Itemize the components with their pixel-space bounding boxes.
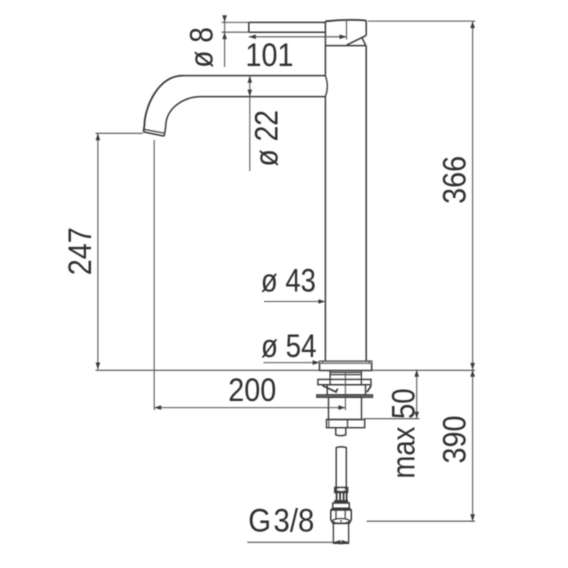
threaded tail (336, 428, 346, 436)
hex nut outline (331, 508, 352, 523)
bottom nut (327, 420, 365, 428)
dimension 247 top arrow (96, 133, 101, 140)
lower shank block (329, 397, 362, 419)
dimension o8 line (224, 17, 226, 68)
dimension max50 line (416, 370, 418, 419)
handle cap left edge (324, 21, 326, 45)
svg-text:G 3/8: G 3/8 (248, 503, 314, 539)
hex nut top band (331, 509, 351, 511)
thread callout right arrow (342, 540, 349, 545)
hex nut bottom ellipse (333, 519, 350, 524)
svg-text:247: 247 (62, 227, 98, 275)
dimension 200 left arrow (154, 405, 161, 410)
dimension o22 line (249, 76, 251, 171)
dimension 200 right arrow (338, 405, 345, 410)
dimension max50 top arrow (414, 370, 419, 377)
dimension 247 ext top (96, 132, 143, 134)
dimension o43 arrow (318, 299, 325, 304)
dimension o54 line (264, 362, 320, 364)
dimension o43 line (264, 301, 325, 303)
base flange outline (320, 361, 372, 370)
dimension 101 right arrow (340, 35, 347, 40)
supply hose tube (336, 447, 346, 488)
dimension o8 top arrow (222, 15, 227, 22)
thread callout line (247, 541, 348, 543)
hose collar (333, 503, 350, 508)
dimension o22 top arrow (248, 76, 253, 83)
svg-text:200: 200 (228, 372, 276, 408)
body right edge (365, 46, 367, 362)
handle cap chamfer (347, 35, 366, 45)
shank right edge (360, 371, 362, 386)
dimension 366 ext top (368, 20, 475, 22)
dimension 366 top arrow (470, 21, 475, 28)
dimension o8 ext bottom (222, 31, 249, 33)
hex nut center dot (340, 520, 342, 522)
dimension o22 bottom arrow (248, 90, 253, 97)
body left edge lower (324, 97, 326, 362)
dimension 390 ext bottom (367, 520, 475, 522)
handle cap bottom edge (325, 45, 366, 47)
dimension 390 line (472, 370, 474, 521)
svg-text:366: 366 (436, 156, 472, 204)
spout outer curve (144, 76, 184, 132)
dimension o54 arrow (313, 360, 320, 365)
svg-text:ø 22: ø 22 (249, 110, 285, 167)
lever handle bar tip edge (248, 22, 250, 32)
svg-text:390: 390 (436, 416, 472, 464)
bottom nut left inner line (328, 420, 330, 428)
washer tab right (367, 386, 371, 393)
spout outlet end edge (143, 132, 164, 136)
dimension 366 line (472, 21, 474, 370)
dimension 390 bottom arrow (470, 514, 475, 521)
handle cap wedge line (362, 38, 366, 46)
dimension max50 bottom arrow (414, 412, 419, 419)
hose crimp bottom band (335, 501, 347, 503)
mounting nut (327, 385, 365, 395)
lever handle bar top edge (249, 21, 326, 23)
shank thread line 1 (330, 371, 361, 373)
dimension o8 ext top (222, 21, 249, 23)
spout bottom edge (200, 96, 325, 98)
base flange corner tick left (322, 361, 324, 363)
dimension 200 ext left (153, 140, 155, 410)
handle cap right edge (365, 21, 367, 36)
outlet pipe (333, 524, 348, 544)
dimension 200 line (154, 407, 345, 409)
mounting surface line right (372, 369, 475, 371)
dimension 101 line (249, 36, 347, 38)
spout inner curve (164, 97, 200, 136)
hex nut facet left (335, 511, 337, 519)
dimension max50 ext bottom (364, 418, 420, 420)
dimension 247 line (97, 133, 99, 369)
spout end bulge arc (325, 76, 327, 97)
shank left edge (329, 371, 331, 386)
thread callout left arrow (333, 540, 340, 545)
thin washer (317, 395, 373, 397)
lever handle bar bottom edge (249, 31, 326, 33)
base flange inner line (320, 362, 372, 364)
bottom nut divider (347, 420, 349, 428)
dimension o8 bottom arrow (222, 32, 227, 39)
hose crimp top ring (335, 488, 348, 493)
dimension 200 ext right center line (344, 372, 346, 410)
svg-text:ø 43: ø 43 (261, 263, 316, 299)
body left edge upper (324, 46, 326, 76)
svg-text:ø 8: ø 8 (183, 27, 219, 68)
horseshoe washer (318, 379, 371, 384)
base flange corner tick right (368, 361, 370, 363)
hose crimp ribs (336, 492, 338, 501)
svg-text:max 50: max 50 (386, 389, 422, 479)
spout top edge (183, 75, 325, 77)
dimension 390 top arrow (470, 370, 475, 377)
spout outlet upper line (144, 129, 165, 133)
shank thread line 2 (330, 374, 361, 376)
dimension 101 ext right (346, 20, 348, 40)
handle cap top arc (325, 20, 366, 21)
washer tab left (323, 386, 338, 392)
dimension 366 bottom arrow (470, 363, 475, 370)
svg-text:ø 54: ø 54 (261, 328, 317, 364)
mounting surface line left (96, 369, 320, 371)
svg-text:101: 101 (246, 37, 294, 73)
dimension 247 bottom arrow (96, 363, 101, 370)
dimension 101 left arrow (249, 35, 256, 40)
hex nut facet right (344, 511, 346, 519)
